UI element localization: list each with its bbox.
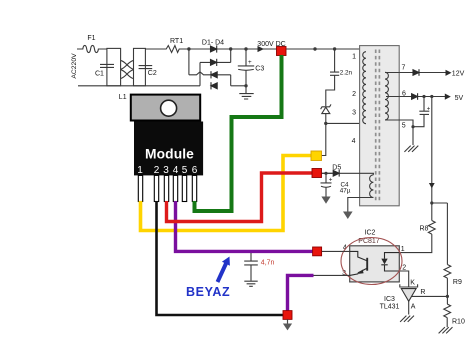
capacitor C1 [100,64,114,67]
svg-text:1: 1 [352,54,356,61]
arrow on 300V wire [258,46,265,52]
svg-text:2.2n: 2.2n [340,69,353,76]
thermistor RT1 [163,46,189,53]
ground earth under 4.7n [244,281,257,286]
svg-text:R8: R8 [420,226,429,233]
bridge minus to C3 [231,85,246,87]
svg-text:L1: L1 [119,94,127,101]
transformer aux coil [370,175,374,198]
svg-text:4,7n: 4,7n [261,260,275,267]
opto-coupler IC2 PC817 box [350,246,400,282]
arrow blue [216,257,230,283]
junction dots right side [324,95,449,298]
diode D1 [211,45,217,52]
svg-text:RT1: RT1 [170,38,183,45]
wire red node to D5 [321,172,333,174]
node 300V DC red square [277,47,287,56]
svg-text:+: + [329,176,333,183]
svg-text:5V: 5V [455,95,464,102]
wire R9 to junction [446,278,448,304]
bridge right vertical plus [230,49,232,62]
svg-text:TL431: TL431 [380,303,400,310]
wire purple opto pin3 [288,275,314,314]
transformer primary coil pins 1-3 [363,52,366,124]
svg-text:7: 7 [402,64,406,71]
capacitor C4 [321,173,332,196]
wire opto pin2 to TL431 [399,271,408,287]
wire yellow node link [322,123,326,155]
capacitor C2 [139,66,153,69]
svg-text:4: 4 [173,165,179,176]
svg-text:+: + [248,59,252,66]
resistor R9 [444,265,451,279]
svg-text:Module: Module [145,147,194,162]
bridge row2 wire [200,61,231,63]
wire R9 branch [446,203,448,265]
choke L1 winding B [134,48,146,85]
svg-text:5: 5 [402,123,406,130]
svg-text:A: A [411,303,416,310]
svg-text:F1: F1 [87,35,95,42]
junction dots input section [187,47,336,125]
wire pin3 [326,122,366,124]
arrow 12V [446,70,452,76]
module U1 tab [131,95,200,121]
wire TL431 R line [412,295,447,297]
diode D5 wire and aux winding [321,173,373,175]
arrow 5V [445,94,451,100]
ground arrow under black node [287,319,289,323]
TL431 anode to ground [408,301,410,314]
wire red pin3 [167,173,313,222]
AC220V input wires [77,49,200,86]
diode D3 [211,71,217,78]
module pin numbers [137,165,198,176]
svg-text:C1: C1 [95,71,104,78]
svg-text:R9: R9 [453,279,462,286]
svg-text:2: 2 [154,165,160,176]
svg-text:1: 1 [137,165,143,176]
wire bridge top [189,48,277,50]
ground slash under pin5 [404,146,418,152]
svg-text:3: 3 [163,165,169,176]
diode D2 [211,59,217,66]
svg-text:AC220V: AC220V [71,53,78,79]
module mounting hole [161,100,177,116]
svg-text:4: 4 [352,138,356,145]
bridge right vertical minus [230,75,232,86]
module body [134,122,203,176]
bridge left vertical AC1 [188,49,190,75]
transformer T1 body [360,46,400,206]
svg-text:+: + [427,107,431,113]
node yellow square [311,151,322,161]
svg-text:3: 3 [352,109,356,116]
transformer secondary coil pins 7-5 [385,72,388,120]
diode D4 [211,82,217,89]
svg-text:D1- D4: D1- D4 [202,40,224,47]
wire 300V to transformer [286,48,366,50]
wire 12V output [385,72,446,74]
wire black pin2 [157,201,285,315]
capacitor 2.2n [326,49,339,106]
svg-text:R: R [420,289,425,296]
wire pin5 to ground [385,120,413,145]
svg-text:C3: C3 [255,66,264,73]
wire aux winding to ground [348,198,374,212]
ground slash under R10 [439,327,453,333]
red ellipse highlight [341,238,402,285]
opto LED [381,253,399,271]
wire purple pin4 [176,201,314,251]
capacitor 4.7n [244,253,258,286]
svg-text:2: 2 [352,91,356,98]
svg-text:IC3: IC3 [384,296,395,303]
module legs [138,175,196,201]
transformer core dashes [376,50,380,202]
resistor R8 [428,221,435,235]
bridge left vertical AC2 [199,62,201,85]
svg-text:5: 5 [182,165,188,176]
wire yellow pin1 [141,156,312,231]
wire R8 to opto pin1 [399,234,432,253]
svg-text:D5: D5 [332,165,341,172]
capacitor C3 [238,49,254,94]
diode 5V [412,93,418,100]
diode D5 [333,170,339,177]
choke L1 winding A [107,48,121,85]
svg-text:K: K [410,279,415,286]
wire R8 branch [432,97,448,221]
marker arrow on R8 wire [429,183,435,188]
choke L1 crossing coupling curves [121,60,134,78]
svg-text:C2: C2 [148,70,157,77]
svg-text:47µ: 47µ [340,188,351,195]
diode 12V [413,69,419,76]
wire 5V output [386,96,445,98]
fuse F1 [79,45,107,52]
ground earth under C3 [239,94,253,99]
svg-text:IC2: IC2 [365,229,376,236]
zener diode symbol [321,104,331,113]
svg-text:R10: R10 [452,318,465,325]
node red square ground [283,311,292,320]
wire green pin6 [195,55,282,211]
(drawn above) [314,173,350,275]
svg-text:1: 1 [401,246,405,253]
node red square drain [312,169,322,178]
wire [145,48,163,50]
svg-text:BEYAZ: BEYAZ [186,285,230,299]
node red square opto4 [313,247,322,256]
svg-text:12V: 12V [452,70,465,77]
wire purple node to opto pin3 [314,274,350,276]
opto phototransistor [350,251,368,275]
capacitor 5V filter [413,97,429,127]
resistor R10 [444,304,451,327]
ground arrow under aux winding [343,212,353,220]
ground slash under TL431 [400,316,414,322]
zener diode clamp [325,114,327,124]
bridge row3 wire with jog [189,72,231,75]
svg-text:2: 2 [402,265,406,272]
wire purple node to opto pin4 [321,250,350,252]
TL431 IC3 [400,284,418,287]
svg-text:6: 6 [192,165,198,176]
ground arrow under C4 [321,197,330,204]
